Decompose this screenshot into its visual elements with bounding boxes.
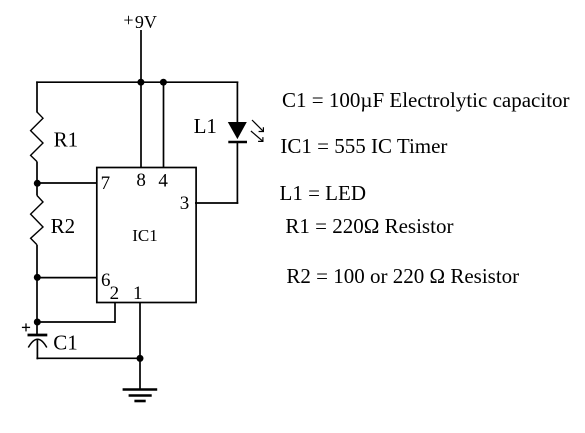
wire left rail from top rail down to R1 <box>36 81 38 112</box>
ground symbol bar 1 <box>123 388 158 391</box>
capacitor C1 bottom plate (curved) <box>28 339 47 347</box>
svg-text:3: 3 <box>180 193 190 214</box>
ground symbol bar 3 <box>134 400 145 403</box>
IC1 555 timer box <box>97 168 196 303</box>
wire pin 2 leg vertical <box>114 302 116 323</box>
svg-text:IC1: IC1 <box>132 226 158 245</box>
svg-text:1: 1 <box>133 283 143 304</box>
resistor R1 zigzag <box>31 112 43 162</box>
svg-text:R1 = 220Ω Resistor: R1 = 220Ω Resistor <box>285 214 453 238</box>
svg-text:C1 = 100µF Electrolytic capaci: C1 = 100µF Electrolytic capacitor <box>282 88 570 112</box>
svg-text:R2: R2 <box>51 214 76 238</box>
svg-text:R1: R1 <box>54 127 79 151</box>
junction dot at pin-8 branch <box>137 79 144 86</box>
svg-text:C1: C1 <box>53 330 78 354</box>
wire top supply rail <box>36 81 238 83</box>
wire node B to pin 6 <box>37 277 97 279</box>
wire LED cathode down <box>236 143 238 204</box>
wire node B down to node C <box>36 278 38 322</box>
LED L1 triangle (anode) <box>228 122 247 139</box>
node A junction dot <box>34 180 41 187</box>
resistor R2 zigzag <box>31 196 43 245</box>
wire +9V supply down to pin 8 <box>140 30 142 167</box>
svg-text:8: 8 <box>136 170 146 191</box>
wire pin 3 to LED branch <box>195 202 238 204</box>
LED light arrow 2 <box>251 131 263 141</box>
wire node A to pin 7 <box>37 182 97 184</box>
svg-text:IC1 = 555 IC Timer: IC1 = 555 IC Timer <box>280 134 447 158</box>
wire node C to pin 2 leg <box>37 321 115 323</box>
wire R2 bottom to node B <box>36 245 38 278</box>
svg-text:R2 = 100 or 220 Ω Resistor: R2 = 100 or 220 Ω Resistor <box>286 264 519 288</box>
svg-text:2: 2 <box>110 283 120 304</box>
junction dot at pin-4 branch <box>160 79 167 86</box>
ground symbol bar 2 <box>129 394 152 397</box>
LED light arrow 1 <box>252 120 263 132</box>
node C junction dot <box>34 319 41 326</box>
wire C1 bottom to ground node <box>36 357 140 359</box>
node B junction dot <box>34 274 41 281</box>
junction dot at ground node <box>137 355 144 362</box>
wire pin 1 down to ground <box>139 302 141 389</box>
svg-text:L1: L1 <box>194 114 217 138</box>
wire node A down to R2 <box>36 183 38 196</box>
wire node C down to C1 top plate <box>36 322 38 334</box>
wire C1 bottom lead down <box>36 339 38 359</box>
wire R1 bottom to node A <box>36 162 38 183</box>
LED L1 cathode bar <box>228 141 247 144</box>
svg-text:9V: 9V <box>135 12 157 32</box>
capacitor C1 top plate <box>28 334 48 337</box>
svg-text:+: + <box>123 10 133 30</box>
capacitor C1 plus polarity mark <box>22 326 30 328</box>
wire LED branch down from top rail <box>236 82 238 123</box>
svg-text:7: 7 <box>101 173 111 194</box>
svg-text:4: 4 <box>158 170 168 191</box>
svg-text:L1 = LED: L1 = LED <box>280 181 367 205</box>
wire pin-4 branch down to IC <box>163 83 165 168</box>
